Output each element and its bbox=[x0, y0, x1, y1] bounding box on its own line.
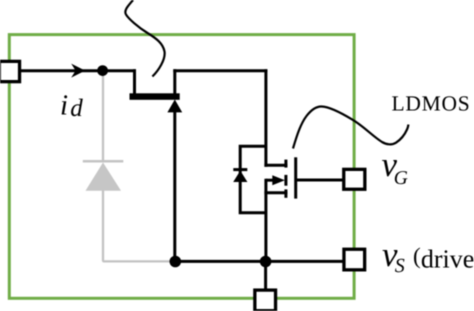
clamp diode triangle under bar bbox=[167, 100, 182, 113]
wire: drain drop to LDMOS bbox=[264, 69, 267, 167]
thick bar electrode of clamp device bbox=[130, 93, 180, 100]
junction dot: clamp branch on source rail bbox=[170, 256, 182, 268]
LDMOS M1 body arrow bbox=[272, 175, 285, 185]
wire: LDMOS source down to bottom rail bbox=[264, 179, 267, 262]
junction dot: LDMOS source on source rail bbox=[260, 256, 272, 268]
svg-text:driven): driven) bbox=[421, 244, 474, 273]
terminal square: bottom substrate terminal bbox=[255, 290, 276, 311]
wire: from clamp diode anode down to bottom rail bbox=[173, 111, 176, 262]
svg-text:S: S bbox=[395, 255, 405, 277]
LDMOS M1 body diode triangle bbox=[233, 171, 247, 182]
svg-text:d: d bbox=[70, 95, 83, 122]
LDMOS M1 body diode cathode bar bbox=[233, 168, 247, 171]
body diode D2 lower gray wire to bottom rail bbox=[103, 191, 173, 262]
body diode D2 (inactive, gray) anode lead from node A down left branch bbox=[102, 73, 104, 161]
wire: input wire from terminal to node A and on to bar bbox=[16, 69, 136, 72]
current direction arrowhead on input wire bbox=[71, 64, 85, 78]
green boundary box of integrated power stage bbox=[9, 35, 354, 299]
body diode D2 triangle (gray) bbox=[86, 163, 122, 191]
curved pointer from LDMOS label to transistor bbox=[293, 106, 408, 148]
LDMOS M1 channel bottom dash bbox=[284, 189, 287, 197]
curved pointer to thick-bar clamp device bbox=[125, 0, 164, 77]
terminal square: vG gate terminal bbox=[344, 169, 365, 189]
terminal square: vS source terminal bbox=[344, 249, 365, 270]
LDMOS transistor M1 drain stub bbox=[264, 164, 287, 167]
LDMOS M1 body diode loop wire bbox=[240, 146, 266, 212]
wire: drop from input wire to thick bar left bbox=[133, 69, 136, 95]
LDMOS M1 channel top dash bbox=[284, 160, 287, 168]
LDMOS M1 source stub bbox=[264, 191, 287, 194]
svg-text:G: G bbox=[394, 168, 408, 189]
wire: top wire from bar to LDMOS drain bbox=[173, 69, 267, 72]
wire: bottom source rail bbox=[174, 260, 343, 263]
svg-text:i: i bbox=[60, 89, 68, 121]
node A junction dot on input wire bbox=[97, 65, 108, 76]
body diode D2 cathode bar (gray) bbox=[83, 160, 124, 163]
wire: from rail down to bottom terminal bbox=[264, 261, 267, 290]
svg-text:LDMOS: LDMOS bbox=[392, 92, 471, 116]
LDMOS M1 channel middle dash bbox=[284, 175, 287, 186]
svg-text:(: ( bbox=[413, 244, 421, 269]
LDMOS M1 body stub bbox=[266, 179, 274, 182]
wire: bar right terminal up to top wire bbox=[173, 69, 176, 95]
LDMOS M1 gate electrode line bbox=[294, 157, 297, 198]
terminal square: drain input (left edge) bbox=[0, 61, 20, 81]
LDMOS M1 gate lead to vG terminal bbox=[296, 179, 343, 182]
